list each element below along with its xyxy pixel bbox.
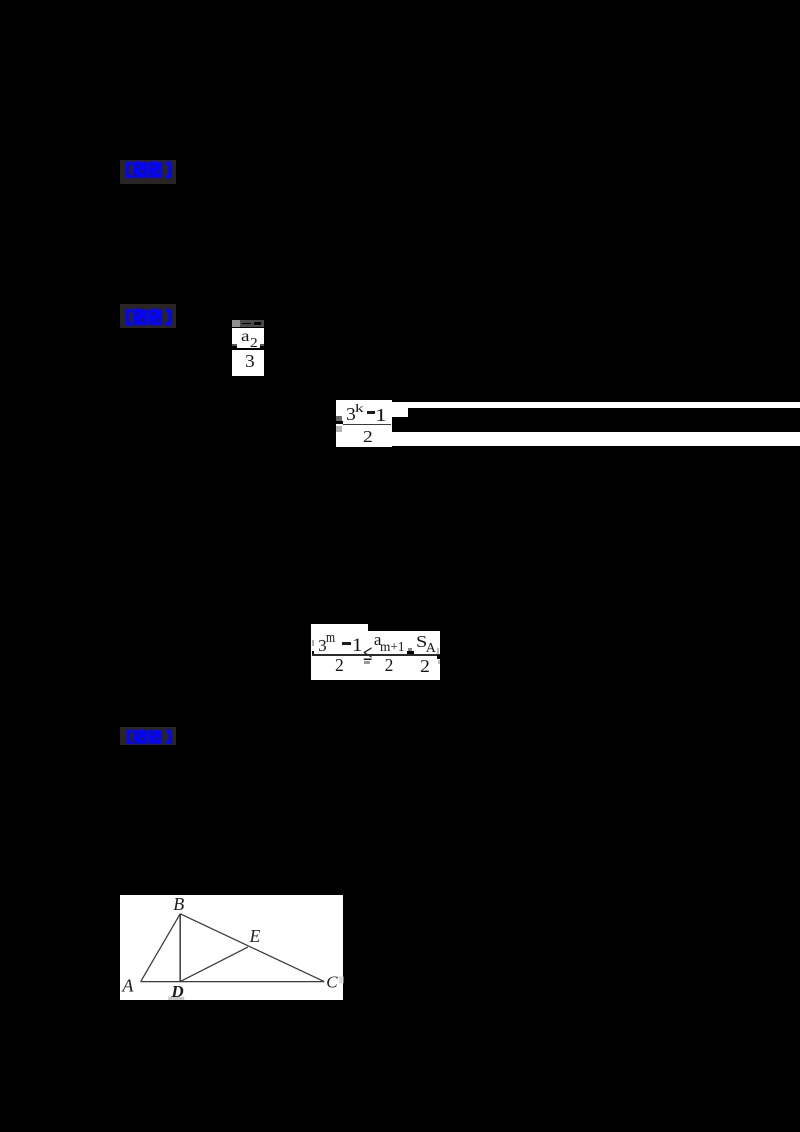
label box 3 [120,727,176,745]
equation 1 numerator a2 [241,329,250,345]
equation 1 fraction bar [232,344,237,346]
label box 2 [120,304,176,328]
equation 3 long fraction bar [312,654,440,656]
svg-text:B: B [173,895,184,914]
svg-text:E: E [248,926,260,946]
svg-text:C: C [326,973,338,992]
line B-C [180,914,324,982]
svg-text:D: D [170,982,183,1000]
line A-B [140,914,180,982]
equation 1 white body [232,328,264,377]
gray square right of C [339,977,344,984]
label box 1 [120,160,176,184]
line A-C [140,981,324,983]
blue label 2 [125,308,173,327]
equation 3 white box left [311,624,367,680]
equation 1 gray header strip [232,320,264,328]
triangle figure [120,895,344,1000]
gray strip under D [168,997,184,1000]
equation 3 numerator 3^m - 1 [318,637,327,654]
equation 2 fraction bar [343,424,391,425]
equation 3 right edge marks [437,648,439,654]
equation 3 le sign [363,643,372,664]
blue label 1 [125,161,173,179]
equation 2 white strip (right part) [392,402,800,446]
equation 2 white strip (fraction part) [336,400,392,447]
triangle figure white box [120,895,344,1000]
line D-E [180,947,248,982]
equation 3 S A [416,633,427,650]
svg-text:A: A [121,976,134,996]
blue label 3 [126,729,173,745]
equation 2 numerator 3^k - 1 [346,406,356,424]
equation 3 left edge marks [312,640,314,646]
equation 2 left edge equals fragments [336,416,342,421]
equation 3 a m+1 [374,631,382,648]
equation 3 white box right [368,631,440,680]
equation 2 black band [408,408,800,432]
equation 2 denominator 2 [363,428,373,445]
line B-D [179,914,181,982]
equation 3 equals blob [408,648,412,651]
equation 1 denominator 3 [245,352,255,370]
equation 3 denominators [335,657,344,675]
